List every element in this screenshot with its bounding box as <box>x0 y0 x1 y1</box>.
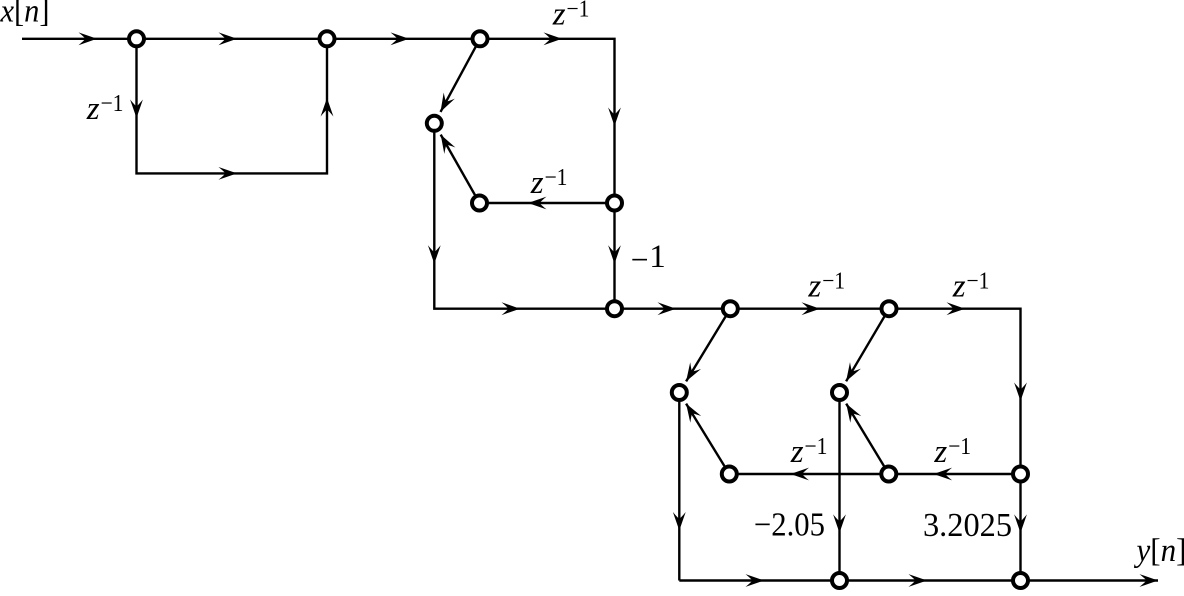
svg-text:−1: −1 <box>101 91 124 117</box>
svg-text:−1: −1 <box>822 269 845 295</box>
svg-text:x[n]: x[n] <box>0 0 49 30</box>
svg-text:−2.05: −2.05 <box>754 507 825 544</box>
svg-text:z: z <box>807 269 821 305</box>
svg-text:−1: −1 <box>948 434 971 460</box>
svg-text:z: z <box>552 0 566 32</box>
svg-text:−1: −1 <box>545 165 568 191</box>
svg-text:−1: −1 <box>966 269 989 295</box>
svg-text:1: 1 <box>649 239 666 275</box>
svg-text:z: z <box>86 91 100 127</box>
svg-text:3.2025: 3.2025 <box>923 507 1012 544</box>
svg-text:z: z <box>530 165 544 201</box>
svg-text:z: z <box>790 434 804 470</box>
svg-text:−1: −1 <box>566 0 589 22</box>
svg-text:z: z <box>933 434 947 470</box>
svg-text:z: z <box>952 269 966 305</box>
svg-text:−1: −1 <box>804 434 827 460</box>
svg-text:y[n]: y[n] <box>1134 533 1184 569</box>
svg-text:−: − <box>631 242 649 278</box>
